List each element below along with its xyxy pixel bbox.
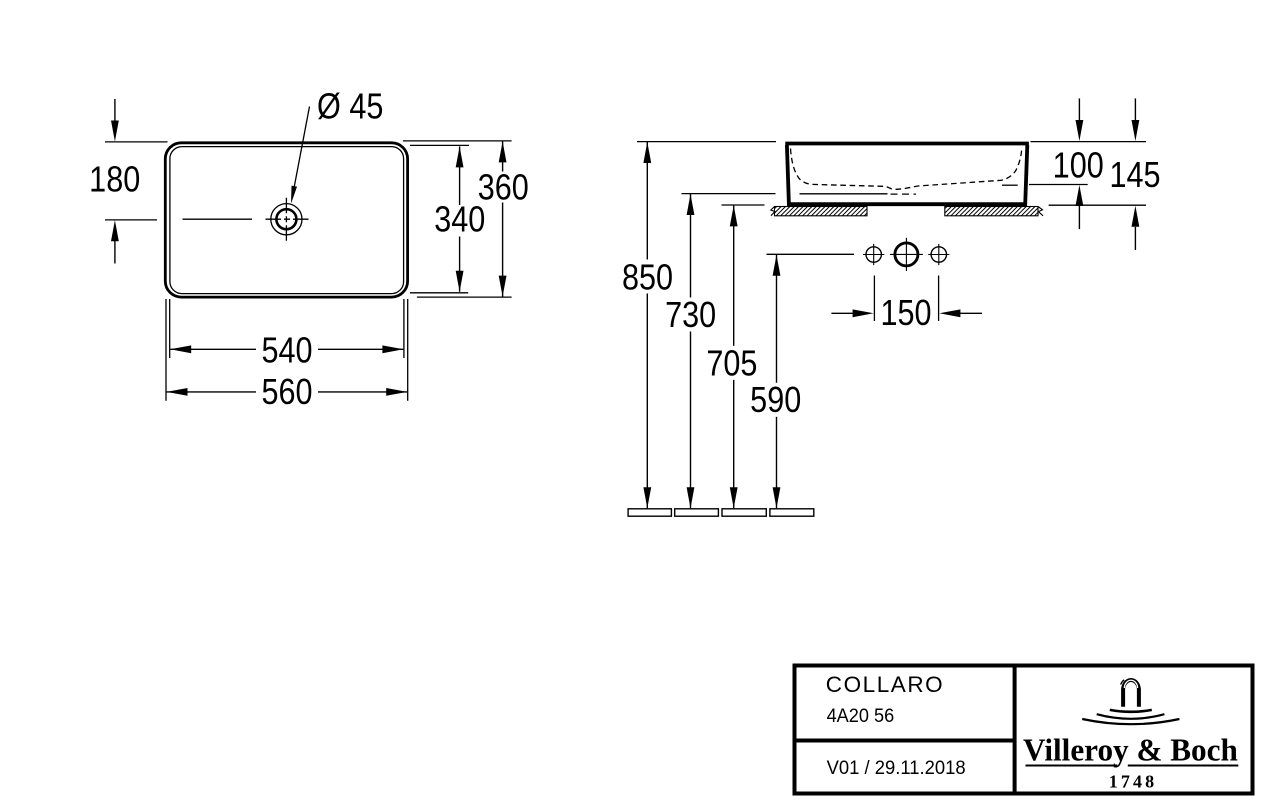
- svg-text:560: 560: [261, 373, 312, 413]
- countertop hatch left block: [771, 207, 867, 216]
- svg-text:180: 180: [89, 160, 140, 200]
- dimension 180 bottom extension line: [105, 219, 157, 221]
- logo wave 2: [1097, 714, 1165, 719]
- mounting hole left small circle: [863, 244, 884, 265]
- countertop hatch right block: [945, 207, 1043, 216]
- dimension 180 top arrow: [111, 99, 119, 142]
- svg-text:590: 590: [750, 381, 801, 421]
- dimension 540 left extension line: [169, 299, 171, 358]
- dimension 145 top arrow: [1132, 98, 1140, 141]
- floor tile 3: [722, 509, 766, 516]
- dimension 180 bottom arrow: [111, 220, 119, 263]
- dimension 100 bottom arrow: [1076, 185, 1084, 229]
- dimension 150 right arrow: [939, 309, 982, 317]
- svg-text:Villeroy & Boch: Villeroy & Boch: [1023, 733, 1238, 768]
- basin side view waterline dashes: [891, 193, 917, 195]
- dimension 360 bottom extension line: [417, 296, 512, 298]
- dimension 100 top arrow: [1076, 98, 1084, 141]
- dimension 850 line with arrows: [643, 142, 651, 508]
- dimension 705 top extension line: [722, 204, 765, 206]
- dimension 590 top extension line: [767, 253, 855, 255]
- basin side view waterline solid segment: [800, 193, 888, 195]
- svg-text:100: 100: [1053, 146, 1104, 186]
- title block vertical divider: [1013, 666, 1017, 794]
- logo faucet arch: [1121, 680, 1139, 707]
- logo wave 3: [1082, 719, 1179, 724]
- title block outer border: [795, 666, 1253, 794]
- floor tile 2: [675, 509, 719, 516]
- title block horizontal divider: [795, 739, 1015, 743]
- dimension 560 line with arrows: [167, 388, 408, 396]
- svg-text:730: 730: [665, 296, 716, 336]
- dimension 730 top extension line: [682, 193, 776, 195]
- svg-text:540: 540: [261, 331, 312, 371]
- basin top view outer outline: [165, 143, 407, 297]
- svg-text:340: 340: [434, 200, 485, 240]
- dimension 340 line with arrows: [456, 146, 464, 291]
- level 145 extension line: [1049, 204, 1146, 206]
- dimension 150 left arrow: [831, 309, 873, 317]
- logo underline right: [1128, 765, 1239, 767]
- tap hole centerline horizontal left: [183, 218, 253, 220]
- dimension 145 bottom arrow: [1132, 206, 1140, 250]
- dimension 850 top extension line: [637, 141, 776, 143]
- dimension 340 bottom extension line: [410, 292, 468, 294]
- dimension 540 line with arrows: [170, 345, 403, 353]
- basin side view interior dashed contour: [791, 149, 1022, 190]
- dimension 150 left extension line: [873, 276, 875, 322]
- drain hole bold circle: [890, 238, 923, 271]
- floor tile 4: [770, 509, 814, 516]
- logo underline left: [1026, 765, 1118, 767]
- dimension 705 line with arrows: [730, 205, 738, 508]
- logo wave 1: [1110, 710, 1152, 712]
- dimension 540 right extension line: [403, 299, 405, 358]
- svg-text:V01 / 29.11.2018: V01 / 29.11.2018: [827, 757, 966, 779]
- dimension 360 line with arrows: [499, 141, 507, 296]
- dimension 730 line with arrows: [687, 194, 695, 508]
- leader line for diameter 45: [288, 107, 309, 205]
- floor tile 1: [628, 509, 671, 516]
- tap hole cross horizontal: [266, 218, 309, 220]
- dimension 180 top extension line: [105, 141, 168, 143]
- rim right extension line: [1031, 141, 1147, 143]
- svg-text:360: 360: [478, 168, 529, 208]
- level 100 extension line: [1029, 184, 1088, 186]
- svg-text:1748: 1748: [1109, 772, 1157, 792]
- dimension 150 right extension line: [938, 276, 940, 322]
- tap hole cross vertical: [285, 198, 287, 241]
- svg-text:4A20 56: 4A20 56: [827, 705, 895, 726]
- dimension 560 left extension line: [165, 299, 167, 401]
- svg-text:COLLARO: COLLARO: [826, 672, 944, 697]
- dimension 360 top extension line: [403, 140, 512, 142]
- dimension 590 line with arrows: [773, 255, 781, 509]
- mounting hole right small circle: [928, 244, 949, 265]
- basin top view inner rim line: [170, 147, 404, 294]
- svg-text:145: 145: [1109, 156, 1160, 196]
- tap hole circle outer thin: [271, 204, 302, 235]
- svg-text:705: 705: [706, 344, 757, 384]
- dimension 560 right extension line: [407, 299, 409, 401]
- svg-text:850: 850: [622, 258, 673, 298]
- basin side view inner-bottom right solid segment: [1002, 184, 1018, 186]
- svg-text:150: 150: [880, 294, 931, 334]
- tap hole circle bold: [276, 209, 296, 229]
- basin side view outline: [785, 144, 1029, 205]
- dimension 340 top extension line: [410, 144, 469, 146]
- svg-text:Ø 45: Ø 45: [317, 87, 383, 127]
